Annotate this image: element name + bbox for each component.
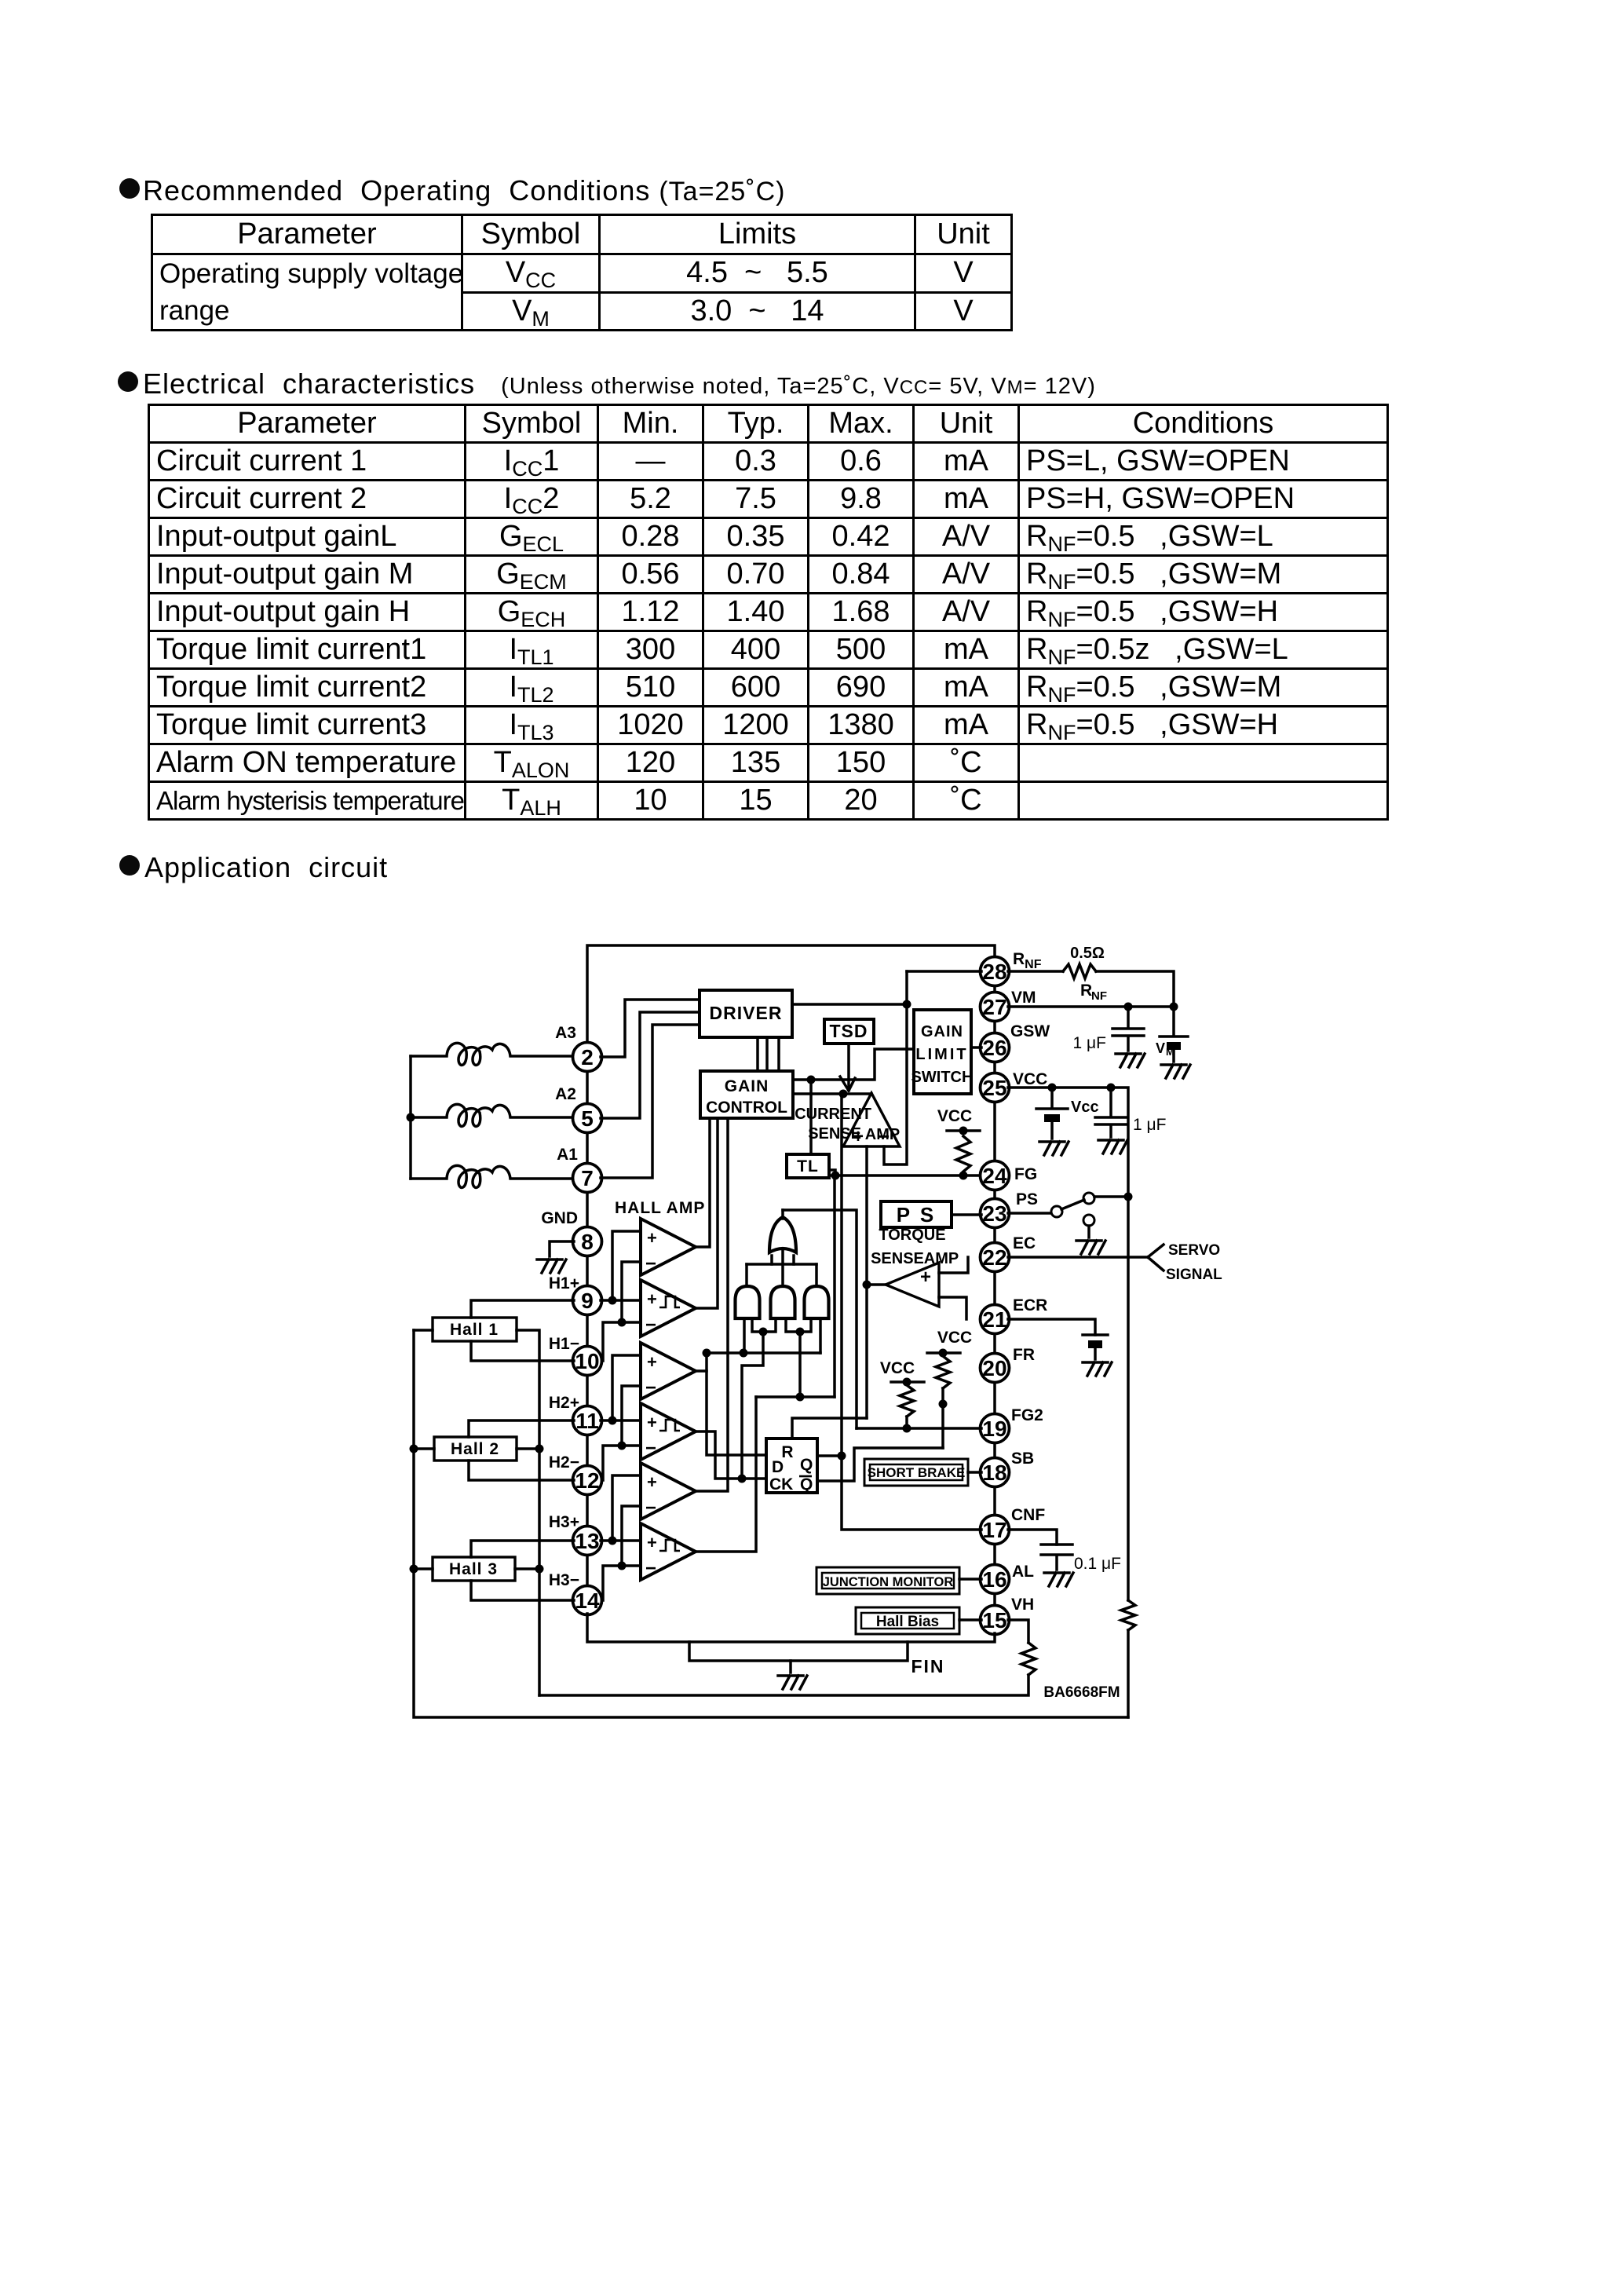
wire amp6 rail y1779 <box>756 1395 835 1398</box>
AND gate G2 <box>771 1286 795 1318</box>
wire ts lower input <box>939 1297 966 1319</box>
block JUNCTION MONITOR <box>816 1567 959 1594</box>
wire AL wire <box>959 1578 981 1581</box>
junction TL branch <box>807 1076 816 1084</box>
block TSD <box>824 1019 874 1044</box>
wire amp A2 out to GAIN CONTROL <box>696 1118 718 1308</box>
wire Hall3 left <box>414 1567 433 1570</box>
wire Hall2 left <box>414 1447 434 1450</box>
junction pull-up A bottom <box>939 1400 948 1409</box>
junction vcc fg tee <box>959 1127 968 1135</box>
svg-text:VCC: VCC <box>1013 1070 1047 1088</box>
svg-text:11: 11 <box>575 1409 599 1433</box>
wire TL to FG wire <box>829 1170 835 1175</box>
svg-text:BA6668FM: BA6668FM <box>1043 1684 1120 1701</box>
wire G3 right stem <box>819 1318 822 1353</box>
junction switch rail junction <box>1124 1193 1133 1201</box>
junction FG-resistor junction <box>959 1172 968 1180</box>
svg-text:FIN: FIN <box>911 1656 944 1676</box>
wire resistor to bottom <box>539 1675 1028 1695</box>
block D flip-flop <box>766 1439 817 1493</box>
svg-text:CNF: CNF <box>1011 1506 1045 1524</box>
svg-text:22: 22 <box>982 1245 1006 1270</box>
wire cs amp base drop <box>865 1146 868 1285</box>
wire VH wire <box>959 1618 981 1621</box>
svg-text:5: 5 <box>581 1106 594 1131</box>
svg-text:SB: SB <box>1011 1450 1034 1468</box>
wire EC wire <box>1008 1256 1148 1259</box>
wire motor common bus left <box>409 1056 412 1179</box>
svg-text:Vcc: Vcc <box>1071 1099 1099 1116</box>
op-amp hall amp A6 <box>641 1523 696 1580</box>
wire H1+ to amp odd plus <box>612 1231 641 1300</box>
block Hall 2 <box>434 1437 517 1461</box>
wire amp A3 out / D net <box>696 1369 707 1373</box>
svg-text:VM: VM <box>1011 989 1036 1007</box>
wire DRIVER to GAIN CONTROL bus <box>758 1037 779 1071</box>
wire FIN detour <box>689 1642 908 1661</box>
svg-text:0.5Ω: 0.5Ω <box>1070 945 1105 962</box>
wire pull-up B to FG2 wire <box>905 1417 908 1428</box>
wire H2- to amp even minus <box>603 1446 641 1480</box>
svg-text:17: 17 <box>982 1518 1006 1542</box>
ground vcc cap2 <box>1098 1140 1127 1153</box>
wire H1+ to amp even plus <box>601 1299 641 1302</box>
wire amp A1 out to GAIN CONTROL <box>696 1118 710 1247</box>
pin 2 <box>573 1043 602 1072</box>
wire rail bottom <box>1127 1630 1130 1717</box>
op-amp hall amp A5 <box>641 1463 696 1519</box>
resistor pull-up B <box>900 1385 914 1417</box>
wire G1-G2 tie <box>752 1318 776 1332</box>
wire FG wire <box>830 1174 981 1177</box>
wire GC to TL net <box>793 1049 914 1080</box>
wire H3- to amp even minus <box>603 1566 641 1600</box>
svg-text:AMP: AMP <box>924 1250 959 1267</box>
svg-text:24: 24 <box>982 1164 1007 1188</box>
junction amp6 rail junction <box>796 1393 805 1402</box>
svg-text:AL: AL <box>1012 1563 1034 1581</box>
VCC tee b <box>891 1380 924 1384</box>
svg-text:+: + <box>647 1228 657 1248</box>
junction pull-up B bottom <box>903 1424 911 1433</box>
pin 9 <box>573 1286 602 1315</box>
svg-text:H3+: H3+ <box>549 1513 579 1531</box>
svg-text:+: + <box>647 1289 657 1309</box>
svg-text:+: + <box>647 1472 657 1492</box>
junction vcc a tee <box>939 1349 948 1358</box>
svg-text:Hall Bias: Hall Bias <box>876 1614 939 1630</box>
svg-text:VCC: VCC <box>937 1329 972 1347</box>
wire amp A5 out to GAIN CONTROL <box>696 1118 728 1491</box>
junction ts out junction <box>863 1281 871 1289</box>
junction H2- branch <box>618 1442 627 1450</box>
svg-text:M: M <box>1166 1046 1174 1058</box>
svg-text:TORQUE: TORQUE <box>879 1227 945 1244</box>
pin 15 <box>981 1606 1010 1635</box>
wire pin7 to DRIVER <box>601 1025 700 1178</box>
wire OR input rail <box>747 1263 816 1266</box>
pin 28 <box>981 957 1010 986</box>
svg-text:SIGNAL: SIGNAL <box>1166 1267 1222 1283</box>
block P S <box>881 1201 952 1227</box>
junction H3+ branch <box>608 1537 617 1545</box>
ground VM cap <box>1116 1054 1145 1067</box>
junction Hall3 right junction <box>535 1565 544 1574</box>
junction G1G2 tie <box>759 1328 768 1336</box>
svg-text:Hall 1: Hall 1 <box>450 1321 499 1339</box>
svg-text:0.1 μF: 0.1 μF <box>1074 1555 1121 1573</box>
wire H1- to amp even minus <box>603 1322 641 1361</box>
svg-text:20: 20 <box>982 1356 1006 1380</box>
junction Hall2 left junction <box>410 1445 418 1453</box>
svg-text:FR: FR <box>1013 1346 1035 1364</box>
wire OR output stem <box>781 1210 784 1219</box>
wire pin23 to switch <box>1008 1212 1051 1215</box>
wire SB wire <box>968 1471 981 1474</box>
svg-text:21: 21 <box>982 1307 1006 1332</box>
svg-text:SWITCH: SWITCH <box>911 1069 974 1086</box>
svg-text:DRIVER: DRIVER <box>710 1003 783 1023</box>
junction H2+ branch <box>608 1417 617 1425</box>
pin 21 <box>981 1305 1010 1334</box>
op-amp CURRENT SENSE AMP <box>843 1093 900 1146</box>
ground switch <box>1076 1241 1105 1254</box>
pin 26 <box>981 1033 1010 1062</box>
svg-text:SERVO: SERVO <box>1168 1242 1220 1259</box>
ground ECR cap <box>1083 1362 1112 1376</box>
block Hall 3 <box>433 1557 515 1581</box>
svg-text:+: + <box>920 1267 931 1288</box>
svg-text:−: − <box>645 1253 656 1274</box>
junction Hall3 left junction <box>410 1565 418 1574</box>
svg-text:D: D <box>772 1458 784 1476</box>
pin 22 <box>981 1243 1010 1272</box>
svg-text:−: − <box>645 1558 656 1579</box>
svg-text:TL: TL <box>797 1157 819 1175</box>
wire Hall2 right <box>517 1447 539 1450</box>
connector SERVO SIGNAL <box>1148 1245 1164 1270</box>
svg-text:SHORT BRAKE: SHORT BRAKE <box>868 1465 966 1480</box>
junction G2G3 tie <box>796 1328 805 1336</box>
wire H3+ to amp even plus <box>601 1539 641 1542</box>
op-amp hall amp A2 <box>641 1280 696 1336</box>
resistor RNF 0.5ohm <box>1063 964 1096 978</box>
svg-text:13: 13 <box>575 1529 599 1553</box>
svg-text:CURRENT: CURRENT <box>795 1106 871 1123</box>
op-amp TORQUE SENSE AMP <box>886 1263 939 1307</box>
wire phase rail y1723 <box>707 1351 820 1355</box>
svg-text:FG2: FG2 <box>1011 1406 1043 1424</box>
svg-text:JUNCTION MONITOR: JUNCTION MONITOR <box>823 1575 954 1589</box>
wire amp odd minus link ch1 <box>622 1262 641 1322</box>
VCC tee fg resistor <box>947 1129 980 1132</box>
wire FIN ground stem <box>789 1661 792 1673</box>
wire TL stem <box>809 1080 813 1154</box>
svg-text:1 μF: 1 μF <box>1073 1034 1106 1052</box>
pin 20 <box>981 1354 1010 1383</box>
svg-text:14: 14 <box>575 1589 600 1613</box>
op-amp hall amp A4 <box>641 1403 696 1460</box>
wire Hall3 to pin13 <box>471 1541 574 1557</box>
wire ts out to R <box>865 1285 868 1418</box>
svg-text:VCC: VCC <box>937 1107 972 1125</box>
pin 16 <box>981 1565 1010 1594</box>
svg-text:9: 9 <box>581 1289 594 1313</box>
junction VM batt junction <box>1170 1003 1178 1011</box>
svg-text:25: 25 <box>982 1076 1006 1100</box>
wire Hall1 to pin10 <box>471 1341 574 1361</box>
junction vcc cap2 junction <box>1107 1084 1116 1092</box>
svg-text:8: 8 <box>581 1230 594 1254</box>
wire switch lower contact stem <box>1087 1226 1090 1238</box>
pin 12 <box>573 1466 602 1495</box>
ground VM batt <box>1161 1065 1190 1078</box>
junction VM cap junction <box>1124 1003 1133 1011</box>
wire PS box wire <box>952 1213 981 1216</box>
svg-text:FG: FG <box>1014 1165 1037 1183</box>
wire ts amp out <box>867 1283 886 1286</box>
wire amp odd minus link ch2 <box>622 1386 641 1446</box>
block TL <box>787 1154 829 1178</box>
svg-text:2: 2 <box>581 1045 594 1069</box>
svg-text:−: − <box>645 1438 656 1459</box>
wire tie to CK net <box>742 1332 763 1479</box>
ground FIN <box>778 1676 807 1689</box>
svg-text:Q: Q <box>800 1475 813 1493</box>
svg-text:CK: CK <box>769 1475 793 1493</box>
capacitor ECR <box>1083 1335 1108 1359</box>
junction H1+ branch <box>608 1296 617 1305</box>
inductor coil A3 <box>411 1043 574 1065</box>
svg-text:GND: GND <box>541 1209 578 1227</box>
block Hall 1 <box>433 1318 517 1341</box>
pin 25 <box>981 1073 1010 1102</box>
block GAIN LIMIT SWITCH <box>914 1010 971 1094</box>
wire right pin chain <box>993 985 996 1607</box>
svg-text:H1−: H1− <box>549 1335 579 1353</box>
svg-text:15: 15 <box>982 1608 1006 1632</box>
block DRIVER <box>700 990 792 1037</box>
wire Qbar out <box>817 1448 943 1481</box>
svg-text:PS: PS <box>1016 1190 1038 1208</box>
wire H2+ to amp odd plus <box>612 1355 641 1420</box>
wire Hall2 to pin12 <box>469 1461 574 1480</box>
resistor pull-up A <box>936 1356 950 1388</box>
wire top loop from pin2 to pin28 <box>587 945 995 1045</box>
wire Hall3 to pin14 <box>471 1581 574 1600</box>
AND gate G1 <box>736 1286 760 1318</box>
wire VM wire <box>1008 1005 1174 1008</box>
wire left pin chain <box>586 1070 589 1587</box>
svg-text:18: 18 <box>982 1461 1006 1485</box>
junction A2 coil to bus <box>407 1113 415 1122</box>
wire VH to resistor <box>1008 1620 1028 1643</box>
junction Hall2 right junction <box>535 1445 544 1453</box>
wire D net vertical <box>707 1353 766 1455</box>
wire TSD arrow <box>847 1044 850 1087</box>
AND gate G3 <box>805 1286 829 1318</box>
VCC tee a <box>927 1351 960 1355</box>
pin 14 <box>573 1586 602 1615</box>
svg-text:GSW: GSW <box>1010 1022 1050 1040</box>
svg-text:H2+: H2+ <box>549 1394 579 1412</box>
junction H1- branch <box>618 1318 627 1327</box>
svg-text:V: V <box>1156 1040 1165 1056</box>
switch PS <box>1051 1206 1062 1217</box>
capacitor 0.1uF <box>1041 1545 1072 1570</box>
svg-text:EC: EC <box>1013 1234 1036 1252</box>
svg-text:GAIN: GAIN <box>725 1077 769 1095</box>
wire Hall3 right <box>515 1567 539 1570</box>
svg-text:VH: VH <box>1011 1596 1034 1614</box>
battery VM <box>1160 1007 1188 1062</box>
svg-text:TSD: TSD <box>830 1021 868 1041</box>
wire Hall2 to pin11 <box>469 1420 574 1437</box>
pin 18 <box>981 1458 1010 1487</box>
wire amp A6 out <box>696 1397 756 1552</box>
wire Q out <box>817 1454 842 1457</box>
resistor hall bias resistor <box>1021 1643 1036 1675</box>
svg-text:23: 23 <box>982 1201 1006 1226</box>
svg-text:LIMIT: LIMIT <box>915 1046 968 1063</box>
svg-text:16: 16 <box>982 1567 1006 1592</box>
wire CNF right wire <box>1008 1530 1057 1545</box>
svg-text:+: + <box>647 1352 657 1372</box>
wire OR in left drop <box>745 1264 748 1286</box>
wire pin14 bottom <box>587 1614 995 1642</box>
pin 8 <box>573 1227 602 1256</box>
wire Hall right bus <box>517 1330 539 1695</box>
junction Q junction <box>838 1452 846 1461</box>
wire FG2 wire <box>857 1427 981 1430</box>
pin 27 <box>981 993 1010 1022</box>
wire pin28 to resistor <box>1008 970 1063 973</box>
wire rail x1063 <box>833 1175 836 1397</box>
svg-text:GAIN: GAIN <box>921 1023 963 1040</box>
pin 11 <box>573 1406 602 1435</box>
op-amp hall amp A3 <box>641 1343 696 1399</box>
wire ECR wire <box>1008 1319 1095 1335</box>
junction vcc b tee <box>903 1378 911 1387</box>
svg-text:RNF: RNF <box>1013 950 1042 971</box>
svg-text:27: 27 <box>982 995 1006 1019</box>
svg-text:H3−: H3− <box>549 1571 579 1589</box>
block SHORT BRAKE <box>864 1459 968 1486</box>
wire GSW wire <box>971 1046 981 1049</box>
wire switch to rail <box>1094 1195 1128 1198</box>
svg-text:A3: A3 <box>555 1024 576 1042</box>
junction CK junction <box>738 1475 747 1483</box>
resistor FG pull-up <box>956 1136 970 1172</box>
wire R net <box>792 1418 867 1439</box>
pin 19 <box>981 1414 1010 1443</box>
wire OR out to FG2 <box>783 1210 857 1428</box>
wire pin5 to DRIVER <box>601 1012 700 1118</box>
wire RNF rail x1155 <box>884 971 907 1164</box>
wire Hall1 left <box>414 1329 433 1332</box>
ground GND pin8 <box>537 1260 566 1273</box>
svg-text:AMP: AMP <box>865 1126 900 1143</box>
svg-text:−: − <box>645 1497 656 1519</box>
svg-text:1 μF: 1 μF <box>1133 1116 1166 1134</box>
pin 13 <box>573 1526 602 1556</box>
OR gate <box>769 1217 796 1252</box>
svg-text:H2−: H2− <box>549 1453 579 1472</box>
svg-text:Hall 2: Hall 2 <box>451 1440 499 1458</box>
wire VCC wire to rail <box>1008 1088 1128 1600</box>
op-amp hall amp A1 <box>641 1219 696 1275</box>
svg-text:SENSE: SENSE <box>808 1125 861 1143</box>
pin 7 <box>573 1164 602 1193</box>
svg-text:28: 28 <box>982 960 1006 984</box>
block GAIN CONTROL <box>700 1071 793 1118</box>
block Hall Bias <box>856 1607 959 1634</box>
pin 23 <box>981 1199 1010 1228</box>
wire G2-G3 tie <box>786 1318 811 1332</box>
svg-text:CONTROL: CONTROL <box>706 1099 787 1117</box>
wire amp A4 out to CK <box>696 1431 766 1479</box>
wire H2+ to amp even plus <box>601 1419 641 1422</box>
svg-text:VCC: VCC <box>880 1359 915 1377</box>
svg-text:+: + <box>647 1533 657 1552</box>
ground cnf cap <box>1044 1573 1073 1586</box>
svg-text:P S: P S <box>897 1203 936 1227</box>
svg-text:Hall 3: Hall 3 <box>449 1560 498 1578</box>
junction driver-out junction <box>903 1000 911 1009</box>
wire ts upper input <box>939 1257 968 1273</box>
wire pin28 wire <box>907 970 981 973</box>
wire pin2 to DRIVER <box>601 1000 700 1057</box>
svg-text:HALL AMP: HALL AMP <box>615 1199 705 1217</box>
pin 5 <box>573 1104 602 1133</box>
wire tie to amp6 rail <box>798 1332 802 1397</box>
wire pull-up A to Qbar net <box>941 1388 944 1448</box>
inductor coil A2 <box>411 1104 574 1126</box>
svg-text:19: 19 <box>982 1417 1006 1441</box>
junction vcc cap1 junction <box>1048 1084 1057 1092</box>
pin 10 <box>573 1347 602 1376</box>
svg-text:A2: A2 <box>555 1085 576 1103</box>
svg-text:−: − <box>645 1314 656 1336</box>
pin 24 <box>981 1161 1010 1190</box>
junction TSD arrow junction <box>839 1090 848 1099</box>
junction H3- branch <box>618 1562 627 1570</box>
wire H3+ to amp odd plus <box>612 1475 641 1541</box>
pin 17 <box>981 1515 1010 1545</box>
svg-text:A1: A1 <box>557 1146 578 1164</box>
svg-text:NF: NF <box>1091 989 1107 1003</box>
wire GC to CS amp apex <box>793 1092 871 1095</box>
wire G1 left stem <box>743 1318 746 1353</box>
junction FG-TL junction <box>831 1172 840 1180</box>
wire resistor to VM cap node <box>1096 971 1174 1007</box>
capacitor Vcc electrolytic <box>1036 1088 1068 1139</box>
junction D net top <box>703 1349 711 1358</box>
svg-text:7: 7 <box>581 1166 594 1190</box>
inductor coil A1 <box>411 1165 574 1187</box>
ground vcc cap1 <box>1039 1142 1069 1155</box>
wire apex net x1072 <box>842 1094 981 1530</box>
capacitor 1uF vcc <box>1095 1088 1127 1137</box>
wire DRIVER output to RNF rail <box>792 1003 907 1006</box>
svg-text:R: R <box>1080 982 1092 1000</box>
svg-text:H1+: H1+ <box>549 1274 579 1292</box>
junction G1 stem junction <box>740 1349 748 1358</box>
capacitor 1uF VM <box>1112 1007 1144 1051</box>
wire pin8 to ground <box>550 1241 574 1256</box>
svg-text:Q: Q <box>800 1456 813 1474</box>
